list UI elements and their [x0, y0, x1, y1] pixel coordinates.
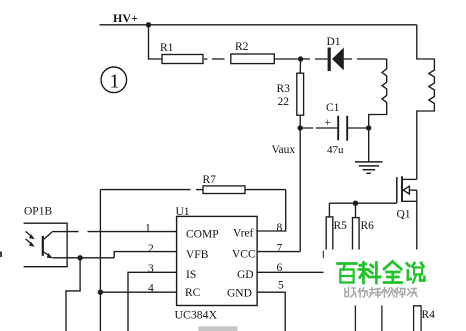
- svg-text:47u: 47u: [327, 144, 344, 156]
- svg-text:8: 8: [277, 222, 283, 234]
- wire mid bottom vertical: [381, 306, 383, 331]
- wire node down to R3: [299, 59, 301, 73]
- wire R7 right: [245, 189, 286, 191]
- wire R6 top: [355, 203, 357, 217]
- node circled 1: [101, 67, 127, 93]
- wire C1 to node: [347, 127, 369, 129]
- svg-text:22: 22: [278, 96, 290, 108]
- watermark white box: [325, 250, 466, 306]
- svg-text:HV+: HV+: [113, 11, 138, 25]
- wire pin5 GND: [257, 292, 285, 331]
- resistor R3: [297, 73, 304, 115]
- capacitor C1: [325, 102, 348, 156]
- char zhu: [345, 288, 356, 298]
- wire D1 to aux winding: [344, 58, 387, 60]
- wire HV+ top rail: [100, 24, 417, 26]
- node emitter junction: [77, 255, 82, 260]
- node Vaux: [298, 125, 303, 130]
- wire gate: [329, 202, 396, 204]
- char bai: [337, 264, 356, 270]
- svg-text:RC: RC: [185, 287, 201, 299]
- svg-text:R1: R1: [160, 42, 174, 54]
- svg-text:GD: GD: [237, 269, 254, 281]
- svg-text:UC384X: UC384X: [175, 308, 218, 322]
- wire emitter junction down-left to bottom: [66, 258, 80, 331]
- resistor R6: [353, 218, 360, 258]
- op-amp U1 IC box UC384X: [177, 216, 258, 305]
- wire pin8 Vref: [257, 190, 286, 231]
- svg-text:7: 7: [277, 242, 283, 254]
- resistor R7: [203, 186, 245, 194]
- wire R6 bottom continuation: [354, 306, 356, 331]
- wire Q1 source down: [416, 190, 418, 250]
- wire emitter to pin2: [53, 257, 115, 259]
- wire pin6 GD: [257, 271, 323, 273]
- resistor R4: [414, 306, 436, 331]
- transformer primary winding (right): [417, 25, 435, 180]
- diode D1: [327, 36, 344, 71]
- svg-text:Vaux: Vaux: [272, 144, 296, 156]
- transistor Q1: [397, 176, 417, 220]
- wire junction down to R1: [149, 25, 163, 59]
- char jie: [395, 288, 406, 298]
- svg-text:R6: R6: [361, 220, 375, 232]
- wire Vaux node to C1: [300, 127, 338, 129]
- svg-text:D1: D1: [327, 36, 341, 48]
- svg-text:R4: R4: [422, 309, 436, 321]
- svg-text:R7: R7: [203, 174, 217, 186]
- wire pin3 IS: [128, 272, 177, 331]
- wire R2 to node: [274, 58, 300, 60]
- node top rail junction: [146, 22, 151, 27]
- svg-text:Q1: Q1: [397, 209, 411, 221]
- node gate R6 junction: [353, 201, 358, 206]
- wire winding bottom to node: [368, 125, 370, 128]
- char quan: [384, 262, 402, 283]
- wire pin1 COMP: [67, 231, 177, 233]
- svg-text:R5: R5: [334, 220, 348, 232]
- svg-text:3: 3: [148, 263, 154, 275]
- grey bar bottom: [198, 326, 237, 331]
- left edge mark: [0, 252, 2, 258]
- svg-text:R3: R3: [277, 83, 291, 95]
- svg-text:C1: C1: [326, 102, 340, 114]
- wire R1 to R2 dashed: [204, 58, 225, 60]
- wire R5 top: [328, 203, 330, 217]
- svg-text:R2: R2: [235, 41, 249, 53]
- svg-text:COMP: COMP: [186, 229, 219, 241]
- wire node to D1 dashed: [303, 58, 328, 60]
- ground: [355, 162, 383, 173]
- resistor R5: [326, 217, 333, 257]
- svg-text:OP1B: OP1B: [24, 206, 52, 218]
- svg-text:Vref: Vref: [233, 228, 254, 240]
- svg-text:1: 1: [145, 223, 151, 235]
- svg-text:IS: IS: [186, 269, 196, 281]
- node after R2: [298, 56, 303, 61]
- watermark logo text green: [337, 262, 424, 284]
- svg-text:VCC: VCC: [232, 248, 256, 260]
- resistor R1: [162, 55, 203, 64]
- wire pin2 VFB: [114, 252, 176, 258]
- char qing: [369, 288, 380, 298]
- svg-text:U1: U1: [176, 206, 190, 218]
- wire R3 to Vaux node: [299, 115, 301, 128]
- optocoupler OP1B: [24, 206, 68, 267]
- wire stub near pin6: [322, 251, 324, 258]
- node RC junction: [98, 290, 103, 295]
- wire R7 left: [100, 189, 203, 191]
- char ni: [358, 288, 367, 297]
- resistor R2: [231, 54, 274, 64]
- svg-text:+: +: [325, 117, 332, 129]
- svg-text:GND: GND: [227, 288, 252, 300]
- wire pin7 VCC: [257, 251, 300, 253]
- svg-text:1: 1: [110, 71, 120, 93]
- char song: [382, 288, 394, 298]
- char shuo: [407, 263, 425, 281]
- wire pin4 RC: [100, 291, 176, 293]
- char jue: [407, 289, 417, 297]
- svg-text:VFB: VFB: [186, 249, 209, 261]
- wire RC vertical line: [99, 190, 101, 331]
- node C1 right: [366, 125, 371, 130]
- wire Vaux down to VCC pin7: [299, 128, 301, 252]
- svg-text:2: 2: [148, 243, 154, 255]
- watermark subtitle grey: [345, 288, 417, 298]
- wire node to ground: [368, 128, 370, 162]
- transformer aux winding (left): [369, 59, 387, 125]
- svg-text:5: 5: [278, 280, 284, 292]
- char ke: [359, 263, 380, 284]
